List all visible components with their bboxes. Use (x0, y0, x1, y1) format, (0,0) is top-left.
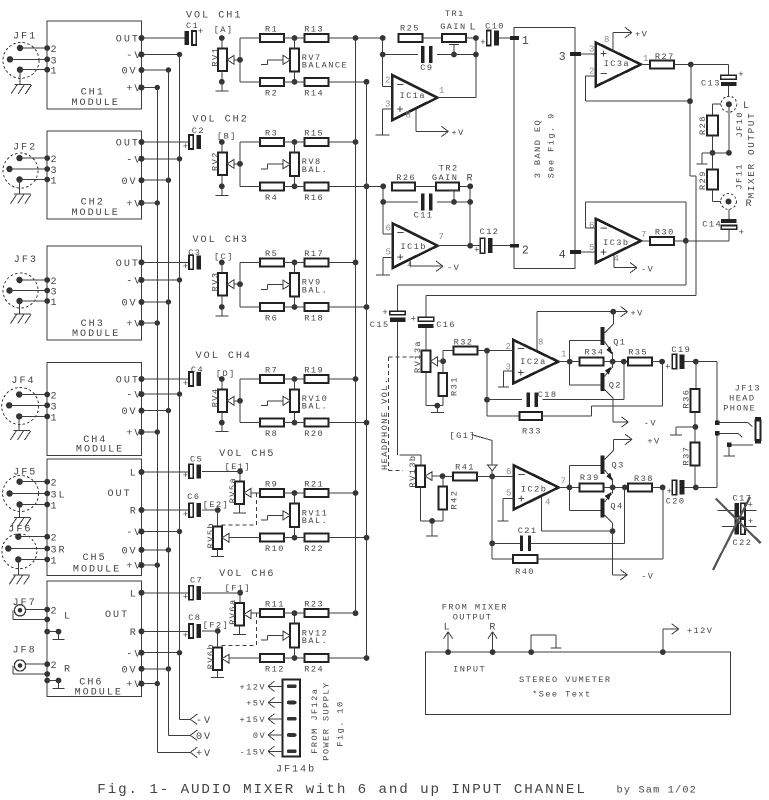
svg-text:3 BAND EQ: 3 BAND EQ (533, 119, 543, 178)
svg-text:2: 2 (51, 479, 59, 490)
svg-text:by Sam 1/02: by Sam 1/02 (617, 784, 697, 796)
svg-text:0V: 0V (122, 177, 138, 188)
svg-text:+V: +V (635, 30, 648, 40)
svg-text:2: 2 (51, 534, 59, 545)
svg-text:R: R (467, 174, 475, 185)
svg-text:R32: R32 (454, 338, 474, 348)
svg-text:6: 6 (386, 224, 391, 234)
svg-text:[C]: [C] (214, 252, 234, 262)
svg-text:R33: R33 (522, 427, 542, 437)
svg-text:2: 2 (51, 607, 59, 618)
svg-text:1: 1 (51, 502, 59, 513)
svg-text:-V: -V (641, 265, 654, 275)
svg-text:7: 7 (561, 477, 566, 487)
svg-text:INPUT: INPUT (453, 665, 486, 675)
svg-text:Q4: Q4 (610, 501, 623, 511)
svg-text:[F1]: [F1] (225, 584, 251, 594)
svg-text:1: 1 (51, 413, 59, 424)
svg-text:R31: R31 (449, 376, 459, 396)
svg-text:See Fig. 9: See Fig. 9 (546, 112, 556, 178)
svg-text:R28: R28 (698, 115, 708, 135)
svg-text:BALANCE: BALANCE (302, 61, 348, 71)
svg-text:R14: R14 (304, 88, 324, 98)
svg-text:+: + (474, 246, 479, 256)
svg-text:RV6b: RV6b (206, 643, 216, 669)
svg-text:2: 2 (589, 67, 594, 77)
svg-text:C8: C8 (188, 613, 201, 623)
svg-text:R6: R6 (265, 314, 278, 324)
svg-text:FROM MIXER: FROM MIXER (442, 603, 508, 613)
svg-text:3: 3 (51, 546, 59, 557)
svg-text:0V: 0V (122, 547, 138, 558)
svg-text:R1: R1 (265, 25, 278, 35)
svg-text:-V: -V (126, 528, 142, 539)
svg-text:3: 3 (51, 56, 59, 67)
svg-text:8: 8 (604, 35, 609, 45)
svg-text:R38: R38 (634, 474, 654, 484)
svg-text:3: 3 (51, 491, 59, 502)
svg-text:BAL.: BAL. (302, 516, 328, 526)
svg-text:L: L (59, 491, 67, 502)
svg-text:R39: R39 (580, 473, 600, 483)
svg-text:MODULE: MODULE (72, 208, 120, 219)
svg-text:OUT: OUT (116, 259, 140, 270)
svg-text:-V: -V (196, 716, 212, 727)
svg-text:2: 2 (51, 661, 59, 672)
svg-text:RV4: RV4 (210, 387, 220, 407)
svg-text:7: 7 (641, 230, 646, 240)
svg-text:C11: C11 (414, 211, 434, 221)
svg-text:MODULE: MODULE (76, 445, 124, 456)
svg-text:R22: R22 (304, 544, 324, 554)
svg-text:5: 5 (506, 489, 511, 499)
svg-text:+: + (183, 379, 188, 389)
svg-text:*See Text: *See Text (532, 690, 591, 700)
svg-text:HEAD: HEAD (729, 394, 755, 404)
svg-text:C21: C21 (518, 526, 538, 536)
svg-text:R23: R23 (304, 600, 324, 610)
svg-text:C5: C5 (190, 455, 203, 465)
svg-text:3: 3 (51, 288, 59, 299)
svg-text:1: 1 (439, 86, 444, 96)
svg-text:R: R (64, 665, 72, 676)
svg-text:R18: R18 (304, 314, 324, 324)
svg-text:C19: C19 (671, 345, 691, 355)
svg-text:R40: R40 (515, 567, 535, 577)
svg-text:3: 3 (589, 45, 594, 55)
svg-text:OUTPUT: OUTPUT (453, 613, 493, 623)
svg-text:R19: R19 (304, 366, 324, 376)
svg-text:R4: R4 (265, 193, 278, 203)
svg-text:R30: R30 (655, 227, 675, 237)
svg-text:VOL CH6: VOL CH6 (219, 569, 275, 580)
svg-text:R11: R11 (265, 600, 285, 610)
svg-text:IC2b: IC2b (521, 485, 547, 495)
svg-text:-V: -V (641, 571, 654, 581)
svg-text:L: L (743, 101, 751, 112)
svg-text:C9: C9 (420, 63, 433, 73)
svg-text:5: 5 (589, 243, 594, 253)
svg-text:[F2]: [F2] (203, 621, 229, 631)
svg-text:-V: -V (644, 418, 657, 428)
svg-text:Q1: Q1 (613, 337, 626, 347)
svg-text:+V: +V (647, 437, 660, 447)
svg-text:0V: 0V (122, 67, 138, 78)
svg-text:JF1: JF1 (13, 32, 37, 43)
svg-text:3: 3 (559, 51, 566, 64)
svg-text:1: 1 (51, 557, 59, 568)
svg-text:2: 2 (51, 277, 59, 288)
svg-text:-V: -V (126, 277, 142, 288)
svg-text:+: + (396, 103, 403, 117)
svg-text:HEADPHONE VOL.: HEADPHONE VOL. (380, 378, 390, 471)
svg-text:GAIN: GAIN (440, 22, 466, 32)
svg-text:R: R (746, 199, 754, 210)
svg-text:6: 6 (506, 467, 511, 477)
svg-text:+V: +V (126, 429, 142, 440)
svg-text:VOL CH4: VOL CH4 (196, 351, 252, 362)
svg-text:JF11: JF11 (735, 163, 745, 189)
svg-text:VOL CH5: VOL CH5 (219, 449, 275, 460)
svg-text:R25: R25 (400, 24, 420, 34)
svg-text:IC2a: IC2a (520, 357, 546, 367)
svg-text:1: 1 (522, 35, 529, 48)
svg-text:+5V: +5V (246, 699, 266, 709)
svg-text:+: + (183, 593, 188, 603)
svg-text:IC1a: IC1a (400, 91, 426, 101)
svg-text:R26: R26 (396, 173, 416, 183)
svg-text:R35: R35 (628, 348, 648, 358)
svg-text:FROM JF12a: FROM JF12a (310, 688, 320, 754)
svg-text:RV5a: RV5a (228, 477, 238, 503)
svg-text:+: + (382, 308, 387, 318)
svg-text:C15: C15 (370, 320, 390, 330)
svg-text:BAL.: BAL. (302, 285, 328, 295)
svg-text:R42: R42 (449, 490, 459, 510)
svg-text:C1: C1 (186, 21, 199, 31)
svg-text:C4: C4 (191, 365, 204, 375)
svg-text:MODULE: MODULE (72, 98, 120, 109)
svg-text:POWER SUPPLY: POWER SUPPLY (321, 681, 331, 760)
svg-text:0V: 0V (122, 299, 138, 310)
svg-text:5: 5 (386, 248, 391, 258)
svg-text:3: 3 (385, 100, 390, 110)
svg-text:R7: R7 (265, 366, 278, 376)
svg-text:R10: R10 (265, 544, 285, 554)
svg-text:−: − (600, 221, 608, 236)
svg-text:OUT: OUT (105, 610, 129, 621)
svg-text:MODULE: MODULE (75, 687, 123, 698)
svg-text:JF8: JF8 (13, 645, 37, 656)
svg-text:4: 4 (545, 498, 550, 508)
svg-text:C12: C12 (480, 227, 500, 237)
svg-text:−: − (518, 468, 526, 483)
svg-text:1: 1 (643, 54, 648, 64)
svg-text:RV13b: RV13b (408, 454, 418, 487)
svg-text:IC3a: IC3a (604, 59, 630, 69)
svg-text:JF13: JF13 (735, 384, 761, 394)
svg-text:-15V: -15V (240, 747, 266, 757)
svg-text:+: + (411, 314, 416, 324)
svg-text:C18: C18 (538, 390, 558, 400)
svg-text:+: + (480, 38, 485, 48)
svg-text:OUT: OUT (116, 139, 140, 150)
svg-text:R: R (59, 546, 67, 557)
svg-text:C20: C20 (666, 497, 686, 507)
svg-text:R34: R34 (585, 348, 605, 358)
svg-text:JF7: JF7 (13, 598, 37, 609)
svg-text:R: R (130, 507, 138, 518)
svg-text:3: 3 (51, 402, 59, 413)
svg-text:GAIN: GAIN (432, 173, 458, 183)
svg-text:R: R (489, 623, 497, 634)
svg-text:-V: -V (126, 51, 142, 62)
svg-text:2: 2 (51, 155, 59, 166)
svg-text:C7: C7 (190, 576, 203, 586)
svg-text:Fig. 10: Fig. 10 (336, 700, 346, 746)
svg-text:+15V: +15V (240, 715, 266, 725)
svg-text:R9: R9 (265, 480, 278, 490)
svg-text:OUT: OUT (116, 35, 140, 46)
svg-text:+12V: +12V (240, 682, 266, 692)
svg-text:1: 1 (561, 350, 566, 360)
svg-text:RV2: RV2 (210, 151, 220, 171)
svg-text:R41: R41 (455, 462, 475, 472)
svg-text:+: + (183, 471, 188, 481)
svg-text:PHONE: PHONE (723, 404, 756, 414)
svg-text:+V: +V (452, 128, 465, 138)
svg-text:+: + (183, 510, 188, 520)
svg-text:8: 8 (538, 338, 543, 348)
svg-text:RV6a: RV6a (228, 598, 238, 624)
svg-text:+: + (183, 142, 188, 152)
svg-text:C13: C13 (701, 79, 721, 89)
svg-text:3: 3 (51, 166, 59, 177)
svg-text:R17: R17 (304, 249, 324, 259)
svg-text:+: + (183, 631, 188, 641)
svg-text:L: L (470, 23, 478, 34)
svg-text:1: 1 (51, 298, 59, 309)
svg-text:[E2]: [E2] (203, 500, 229, 510)
svg-text:OUT: OUT (108, 489, 132, 500)
svg-text:8: 8 (406, 111, 411, 121)
svg-text:2: 2 (385, 76, 390, 86)
svg-text:C16: C16 (436, 320, 456, 330)
svg-text:CH2: CH2 (81, 198, 105, 209)
svg-text:1: 1 (51, 67, 59, 78)
svg-text:C6: C6 (187, 492, 200, 502)
svg-text:BAL.: BAL. (302, 165, 328, 175)
svg-text:+V: +V (126, 200, 142, 211)
svg-text:R36: R36 (682, 389, 692, 409)
svg-text:+: + (739, 228, 744, 238)
svg-text:R24: R24 (304, 665, 324, 675)
svg-text:+: + (667, 487, 672, 497)
svg-text:TR1: TR1 (445, 9, 465, 19)
svg-text:+V: +V (126, 84, 142, 95)
svg-text:JF2: JF2 (13, 143, 37, 154)
svg-text:[B]: [B] (217, 132, 237, 142)
svg-text:R20: R20 (304, 429, 324, 439)
svg-text:[D]: [D] (216, 369, 236, 379)
svg-text:R: R (130, 628, 138, 639)
svg-text:7: 7 (439, 232, 444, 242)
svg-text:RV3: RV3 (210, 272, 220, 292)
svg-text:C2: C2 (192, 126, 205, 136)
svg-text:+V: +V (631, 309, 644, 319)
svg-text:C22: C22 (733, 538, 753, 548)
svg-text:−: − (517, 342, 525, 357)
svg-text:2: 2 (51, 392, 59, 403)
svg-text:VOL CH3: VOL CH3 (193, 235, 249, 246)
svg-text:R8: R8 (265, 429, 278, 439)
svg-text:+: + (397, 251, 404, 265)
svg-text:R29: R29 (698, 170, 708, 190)
svg-text:R27: R27 (655, 52, 675, 62)
svg-text:R21: R21 (304, 480, 324, 490)
svg-text:6: 6 (589, 221, 594, 231)
svg-text:C3: C3 (188, 248, 201, 258)
svg-text:VOL CH1: VOL CH1 (186, 11, 242, 22)
svg-text:+: + (665, 363, 670, 373)
svg-text:+: + (518, 492, 525, 506)
svg-text:+12V: +12V (687, 626, 713, 636)
svg-text:Fig. 1- AUDIO MIXER with 6 and: Fig. 1- AUDIO MIXER with 6 and up INPUT … (97, 782, 586, 798)
svg-text:[G1]: [G1] (450, 431, 476, 441)
svg-text:RV1: RV1 (210, 47, 220, 67)
svg-text:1: 1 (51, 177, 59, 188)
svg-text:MIXER OUTPUT: MIXER OUTPUT (746, 112, 757, 199)
svg-text:L: L (130, 469, 138, 480)
svg-text:[E1]: [E1] (225, 462, 251, 472)
svg-text:R37: R37 (682, 446, 692, 466)
svg-text:+: + (517, 366, 524, 380)
svg-text:BAL.: BAL. (302, 636, 328, 646)
svg-text:JF10: JF10 (735, 111, 745, 137)
svg-text:JF6: JF6 (8, 524, 32, 535)
svg-text:0V: 0V (122, 665, 138, 676)
svg-text:IC3b: IC3b (603, 238, 629, 248)
svg-text:R12: R12 (265, 665, 285, 675)
svg-text:R5: R5 (265, 249, 278, 259)
svg-text:RV5b: RV5b (206, 522, 216, 548)
svg-text:0V: 0V (196, 732, 212, 743)
svg-text:R15: R15 (304, 129, 324, 139)
svg-text:[A]: [A] (214, 25, 234, 35)
svg-text:−: − (397, 226, 405, 241)
svg-text:-V: -V (126, 391, 142, 402)
svg-text:JF14b: JF14b (276, 764, 316, 776)
svg-text:-V: -V (126, 155, 142, 166)
svg-text:Q3: Q3 (612, 461, 625, 471)
svg-text:BAL.: BAL. (302, 401, 328, 411)
svg-text:MODULE: MODULE (73, 564, 121, 575)
svg-text:JF4: JF4 (11, 376, 35, 387)
svg-text:+V: +V (126, 562, 142, 573)
svg-text:R16: R16 (304, 193, 324, 203)
svg-text:+V: +V (126, 680, 142, 691)
svg-text:-V: -V (447, 263, 460, 273)
svg-text:TR2: TR2 (439, 164, 459, 174)
svg-text:CH5: CH5 (83, 553, 107, 564)
svg-text:4: 4 (559, 249, 566, 262)
svg-text:+V: +V (196, 749, 212, 760)
svg-text:JF5: JF5 (13, 468, 37, 479)
svg-text:Q2: Q2 (609, 381, 622, 391)
svg-text:JF3: JF3 (14, 255, 38, 266)
svg-text:0V: 0V (122, 407, 138, 418)
svg-text:+: + (748, 517, 753, 527)
svg-text:OUT: OUT (116, 376, 140, 387)
svg-text:+: + (738, 70, 743, 80)
svg-text:2: 2 (51, 45, 59, 56)
svg-text:IC1b: IC1b (401, 242, 427, 252)
svg-text:0V: 0V (253, 731, 266, 741)
svg-text:L: L (64, 612, 72, 623)
svg-text:-V: -V (126, 649, 142, 660)
svg-text:R13: R13 (304, 25, 324, 35)
svg-text:R2: R2 (265, 88, 278, 98)
svg-text:MODULE: MODULE (72, 329, 120, 340)
svg-text:C14: C14 (702, 220, 722, 230)
svg-text:+V: +V (126, 320, 142, 331)
svg-text:STEREO VUMETER: STEREO VUMETER (519, 675, 612, 685)
svg-text:2: 2 (522, 245, 529, 258)
svg-text:L: L (130, 589, 138, 600)
svg-text:R3: R3 (265, 129, 278, 139)
svg-text:2: 2 (506, 342, 511, 352)
svg-text:VOL CH2: VOL CH2 (192, 115, 248, 126)
svg-text:+: + (183, 262, 188, 272)
